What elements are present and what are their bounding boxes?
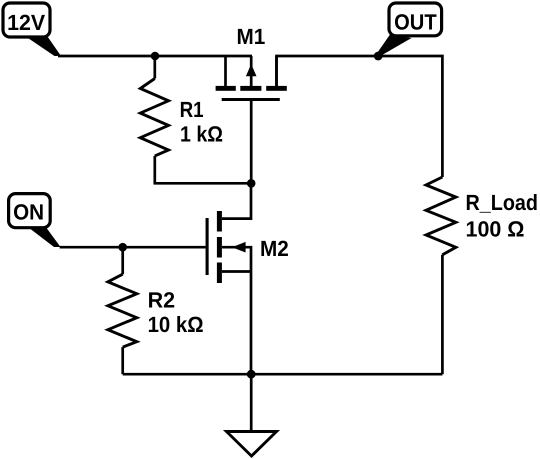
M2 gate plate	[206, 218, 209, 275]
ground	[227, 432, 277, 457]
svg-text:10 kΩ: 10 kΩ	[148, 312, 204, 337]
M1 drain lead	[275, 56, 278, 86]
wire: bottom rail	[123, 373, 443, 376]
wire: M1 drain to OUT corner and down right side	[277, 56, 443, 177]
flag ON	[9, 194, 61, 247]
svg-text:R_Load: R_Load	[466, 190, 539, 215]
M1 body arrow (up)	[246, 64, 257, 76]
resistor R1	[140, 79, 168, 156]
node: junction dot gate of M1 / R1 bottom	[247, 179, 256, 188]
M2 source wire	[222, 270, 251, 273]
M2 body arrow (left)	[232, 242, 246, 253]
svg-text:M2: M2	[260, 236, 289, 261]
svg-text:1 kΩ: 1 kΩ	[180, 121, 223, 146]
transistor M1 (PMOS, horizontal)	[216, 56, 287, 183]
node: junction dot bottom rail / ground	[247, 370, 256, 379]
node: junction dot R2 top	[118, 243, 127, 252]
wire: R1 bottom lead and run to gate node	[155, 156, 251, 183]
M2 channel bars	[217, 211, 222, 232]
M1 gate plate	[222, 98, 280, 101]
M1 channel bars	[216, 86, 236, 91]
svg-text:100 Ω: 100 Ω	[466, 216, 525, 241]
svg-text:R2: R2	[148, 288, 176, 313]
M1 gate lead down to node	[250, 100, 253, 184]
svg-text:ON: ON	[13, 199, 44, 224]
node: junction dot OUT	[374, 52, 383, 61]
flag OUT	[378, 3, 442, 57]
resistor R2	[108, 274, 137, 347]
wire: 12V to M1 source (top left rail)	[58, 55, 252, 58]
resistor R_Load	[426, 177, 456, 255]
svg-text:12V: 12V	[7, 10, 45, 35]
wire: R_Load bottom lead down right side	[441, 255, 444, 374]
wire: R1 top lead from 12V rail	[153, 56, 156, 79]
svg-text:M1: M1	[237, 24, 266, 49]
flag 12V	[3, 3, 61, 56]
node: junction dot at R1 top	[151, 52, 160, 61]
M2 body wire with source tie	[222, 247, 251, 374]
wire: ground stem	[250, 374, 253, 431]
wire: ON label to M2 gate	[60, 246, 206, 249]
svg-text:R1: R1	[180, 97, 204, 122]
M1 body lead	[250, 56, 253, 86]
transistor M2 (NMOS, vertical, gate left)	[207, 183, 251, 374]
wire: R2 top lead from ON wire	[121, 247, 124, 274]
wire: R2 bottom lead to bottom rail	[121, 347, 124, 374]
svg-text:OUT: OUT	[394, 9, 437, 34]
M1 source lead	[224, 56, 227, 86]
M2 drain wire from node	[222, 183, 251, 218]
